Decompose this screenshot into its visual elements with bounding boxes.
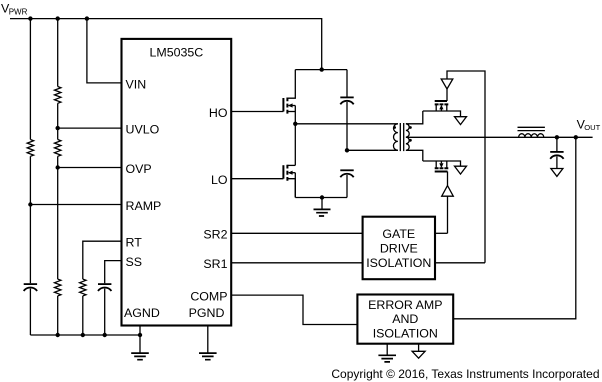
wire driver B feed — [447, 196, 449, 233]
wire analog ground rail — [30, 334, 140, 336]
ground lower SR (open triangle) — [455, 166, 467, 174]
svg-text:DRIVE: DRIVE — [380, 242, 418, 256]
wire switch node to primary top — [295, 123, 398, 125]
svg-text:LO: LO — [211, 173, 228, 187]
wire UVLO pin — [58, 127, 122, 129]
transformer T1 core — [400, 123, 403, 151]
wire line B lower — [57, 296, 59, 335]
wire SR2 pin to box — [231, 232, 363, 234]
resistor R4 (OVP lower) — [55, 279, 61, 296]
svg-text:ERROR AMP: ERROR AMP — [368, 298, 442, 312]
node T1 secondary polarity dot top — [409, 126, 412, 129]
inductor L1 core — [518, 127, 545, 130]
wire Q4 gate — [447, 172, 449, 186]
capacitor C_RAMP (x=30.4) — [24, 283, 37, 285]
node T1 secondary polarity dot bottom — [409, 139, 412, 142]
wire SS lower — [104, 289, 106, 335]
node RAMP junction — [28, 202, 32, 206]
wire secondary bottom to SR rail — [406, 150, 423, 161]
wire line C (x=86.9 to VIN) — [87, 19, 122, 83]
wire OVP pin — [58, 167, 122, 169]
op-amp U2 gate drive isolation box — [363, 217, 435, 280]
wire SR1 pin to box — [231, 262, 363, 264]
wire LO pin — [231, 178, 283, 180]
svg-text:SR1: SR1 — [203, 257, 227, 271]
wire secondary top to SR rail — [406, 111, 423, 124]
wire RT pin — [83, 241, 122, 279]
node T1 primary polarity dot — [393, 126, 396, 129]
wire primary bottom (cap mid to transformer) — [347, 149, 398, 151]
wire error amp output feedback — [453, 137, 576, 318]
wire line B seg3 — [57, 156, 59, 279]
resistor R_RT — [80, 279, 86, 296]
ground output (open triangle) — [551, 169, 563, 177]
wire line B seg2 — [57, 103, 59, 139]
svg-text:SS: SS — [126, 255, 143, 269]
transistor Q2 lower primary FET — [282, 165, 284, 179]
svg-text:VIN: VIN — [126, 77, 147, 91]
svg-text:SR2: SR2 — [203, 228, 227, 242]
wire COMP pin to error amp — [231, 295, 357, 324]
ground half-bridge — [314, 209, 331, 216]
ground AGND — [131, 353, 149, 360]
resistor R1 (feedforward, x=30.4) — [27, 140, 33, 157]
wire line B upper (x=57.7) — [57, 19, 59, 87]
svg-text:RT: RT — [126, 236, 143, 250]
wire error amp ground stub — [386, 344, 388, 356]
ground PGND — [199, 353, 217, 360]
node UVLO junction — [56, 126, 60, 130]
svg-text:Copyright © 2016, Texas Instru: Copyright © 2016, Texas Instruments Inco… — [331, 367, 599, 381]
ground error amp earth — [378, 355, 396, 362]
wire driver A feed — [447, 71, 485, 263]
svg-text:AND: AND — [392, 312, 418, 326]
wire half-bridge top rail — [295, 69, 347, 71]
svg-text:PGND: PGND — [189, 306, 225, 320]
wire error amp triangle stub — [418, 344, 420, 352]
inductor L1 winding — [519, 134, 544, 138]
wire PGND stub — [207, 326, 209, 354]
buffer driver B (up) — [442, 186, 454, 197]
resistor R3 (UVLO/OVP mid) — [55, 140, 61, 157]
svg-text:OVP: OVP — [126, 162, 152, 176]
wire SS pin — [105, 261, 122, 284]
svg-text:COMP: COMP — [190, 290, 227, 304]
wire AGND stub — [139, 326, 141, 354]
wire box to driver B — [435, 232, 448, 234]
wire lower SR rail — [423, 161, 461, 166]
transformer T1 secondary winding — [406, 124, 409, 151]
wire HO pin — [231, 111, 283, 113]
node bottom rail ground junction — [320, 195, 324, 199]
node output cap junction — [555, 135, 559, 139]
svg-text:RAMP: RAMP — [126, 199, 162, 213]
node OVP junction — [56, 165, 60, 169]
capacitor C2 (lower bridge cap) — [340, 169, 353, 171]
capacitor C1 (upper bridge cap) — [346, 70, 348, 97]
wire switch node down to Q2 drain — [294, 124, 296, 166]
svg-text:PWR: PWR — [9, 8, 28, 17]
node capacitor midpoint — [345, 148, 349, 152]
transformer T1 primary winding — [393, 124, 397, 151]
wire RAMP pin — [30, 204, 122, 206]
op-amp U1 LM5035C box — [122, 39, 232, 326]
svg-text:AGND: AGND — [124, 306, 160, 320]
svg-text:OUT: OUT — [584, 123, 600, 132]
wire box to driver A — [435, 262, 485, 264]
ground error amp (open triangle) — [412, 351, 425, 358]
resistor R2 (UVLO upper) — [55, 87, 61, 104]
wire upper SR rail — [423, 111, 461, 117]
ground upper SR (open triangle) — [455, 117, 467, 125]
capacitor C_OUT — [556, 137, 558, 151]
svg-text:ISOLATION: ISOLATION — [373, 326, 438, 340]
wire line A lower — [29, 289, 31, 335]
op-amp U3 error amp isolation box — [357, 295, 453, 344]
node junction dots on VPWR rail — [28, 16, 32, 20]
wire VPWR top rail — [10, 19, 322, 70]
transistor Q4 lower SR FET — [435, 171, 448, 173]
wire Q3 gate — [446, 89, 448, 101]
buffer driver A (down) — [441, 79, 453, 89]
transistor Q1 upper primary FET — [282, 98, 284, 112]
wire output line — [406, 136, 593, 138]
transistor Q3 upper SR FET — [435, 100, 447, 102]
wire line A mid — [29, 156, 31, 283]
node rail dots — [56, 333, 60, 337]
node VOUT junction — [574, 135, 578, 139]
wire RT lower — [82, 296, 84, 335]
node VPWR/half-bridge junction — [320, 67, 324, 71]
svg-text:LM5035C: LM5035C — [150, 46, 204, 60]
node switch node — [293, 122, 297, 126]
capacitor C_SS — [98, 283, 111, 285]
svg-text:UVLO: UVLO — [126, 123, 160, 137]
wire line A upper (x=30.4 VPWR to R) — [29, 19, 31, 140]
svg-text:HO: HO — [209, 106, 228, 120]
svg-text:GATE: GATE — [382, 227, 415, 241]
wire half-bridge bottom rail — [295, 197, 347, 199]
svg-text:ISOLATION: ISOLATION — [366, 256, 431, 270]
wire ground stub — [321, 198, 323, 210]
